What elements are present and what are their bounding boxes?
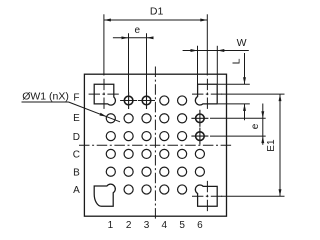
- svg-text:W: W: [237, 37, 247, 49]
- svg-text:6: 6: [197, 220, 203, 231]
- svg-text:e: e: [250, 123, 261, 129]
- svg-text:B: B: [73, 167, 80, 178]
- svg-text:E: E: [73, 113, 80, 124]
- svg-text:F: F: [73, 93, 79, 104]
- svg-text:4: 4: [162, 220, 168, 231]
- svg-text:C: C: [73, 150, 80, 161]
- svg-text:ØW1 (nX): ØW1 (nX): [22, 91, 69, 103]
- svg-text:A: A: [73, 185, 80, 196]
- svg-text:1: 1: [108, 220, 114, 231]
- svg-text:L: L: [231, 58, 243, 64]
- svg-text:3: 3: [144, 220, 150, 231]
- svg-text:e: e: [135, 25, 141, 36]
- svg-text:D: D: [73, 132, 80, 143]
- svg-text:5: 5: [179, 220, 185, 231]
- svg-text:2: 2: [126, 220, 132, 231]
- svg-text:E1: E1: [266, 139, 277, 152]
- svg-text:D1: D1: [150, 6, 164, 18]
